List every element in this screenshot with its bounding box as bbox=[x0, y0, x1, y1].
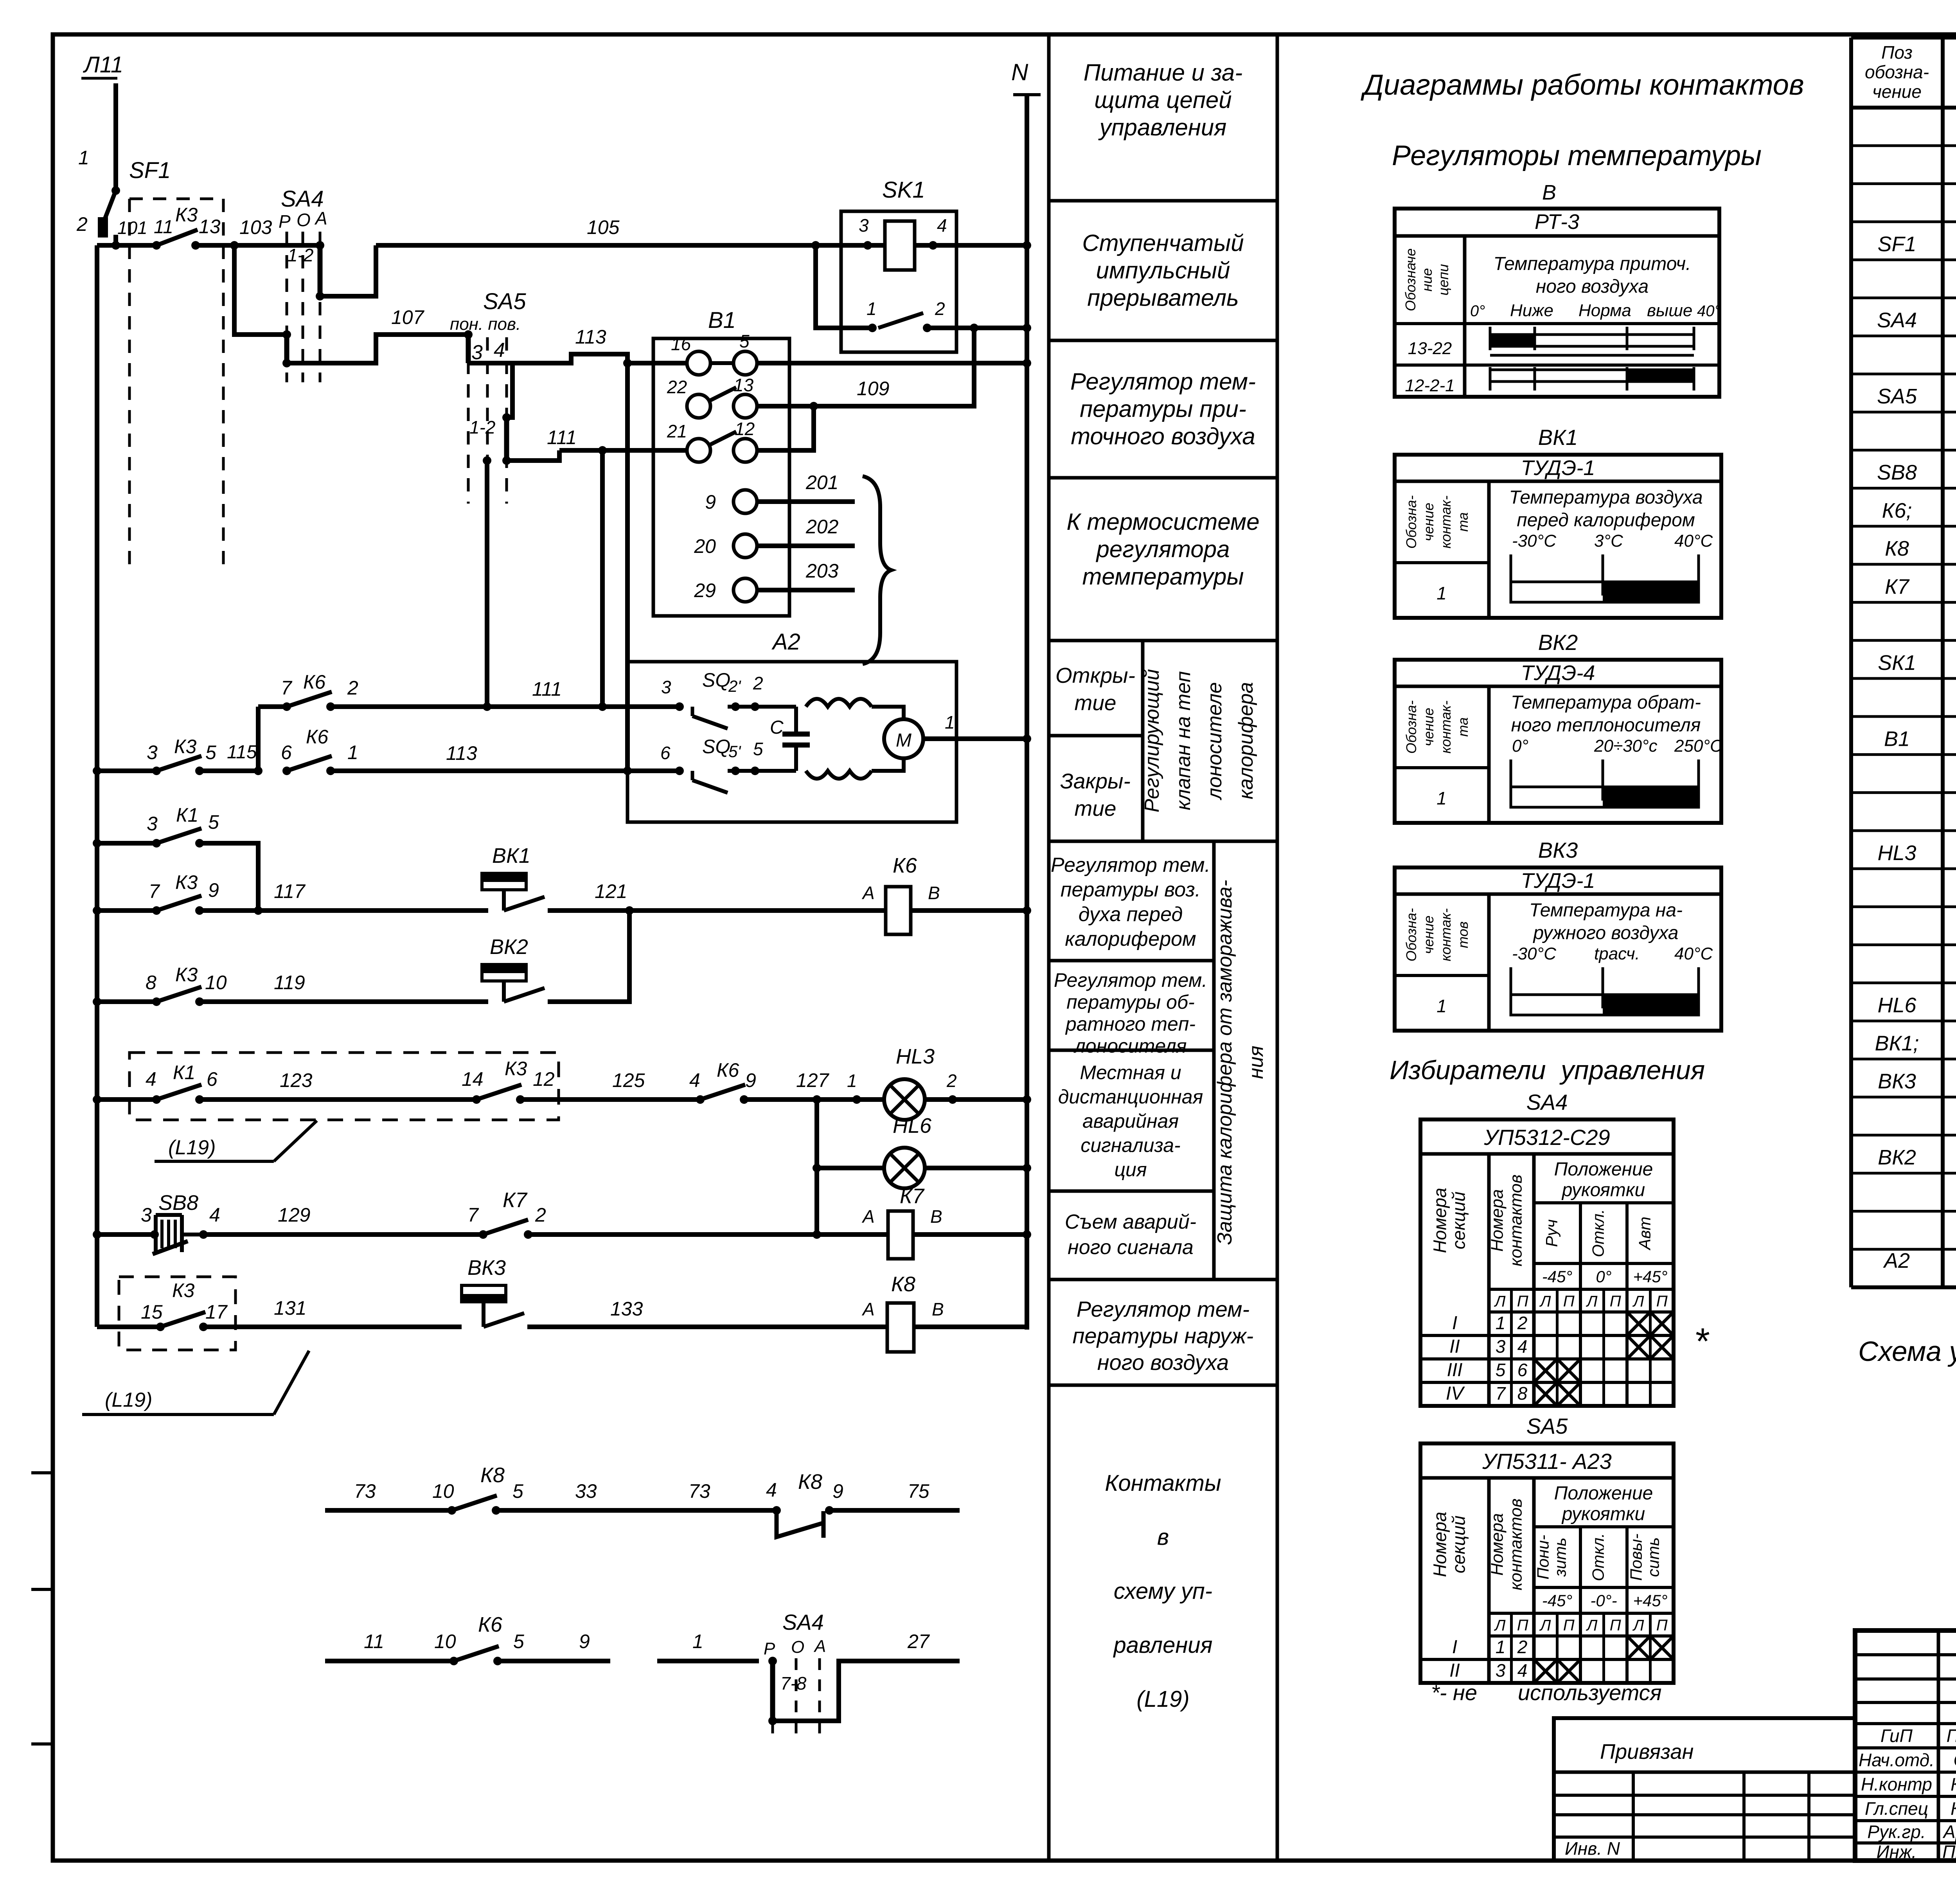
svg-text:113: 113 bbox=[575, 326, 606, 348]
svg-text:равления: равления bbox=[1113, 1632, 1213, 1658]
svg-text:33: 33 bbox=[575, 1480, 597, 1502]
svg-text:та: та bbox=[1455, 717, 1471, 737]
svg-text:контактов: контактов bbox=[1507, 1175, 1526, 1267]
svg-text:Закры-: Закры- bbox=[1060, 769, 1131, 793]
svg-text:I: I bbox=[1452, 1637, 1457, 1657]
svg-text:10: 10 bbox=[432, 1480, 454, 1502]
svg-text:73: 73 bbox=[354, 1480, 376, 1502]
svg-text:0°: 0° bbox=[1470, 302, 1485, 320]
svg-text:Номера: Номера bbox=[1430, 1512, 1450, 1577]
svg-text:1: 1 bbox=[867, 299, 877, 319]
svg-text:В: В bbox=[1542, 181, 1556, 204]
svg-text:К6: К6 bbox=[893, 854, 917, 877]
svg-text:Съем аварий-: Съем аварий- bbox=[1065, 1211, 1196, 1233]
svg-text:40°: 40° bbox=[1697, 302, 1721, 320]
svg-text:А2: А2 bbox=[771, 629, 800, 655]
svg-text:ружного воздуха: ружного воздуха bbox=[1532, 923, 1678, 943]
svg-text:(L19): (L19) bbox=[168, 1136, 216, 1159]
svg-text:в: в bbox=[1157, 1524, 1169, 1550]
svg-text:Ступенчатый: Ступенчатый bbox=[1082, 230, 1244, 256]
svg-text:рукоятки: рукоятки bbox=[1561, 1504, 1645, 1524]
svg-text:Р: Р bbox=[279, 211, 291, 232]
svg-text:УП5312-С29: УП5312-С29 bbox=[1483, 1125, 1610, 1150]
svg-text:Температура приточ.: Температура приточ. bbox=[1494, 254, 1691, 274]
svg-text:В: В bbox=[928, 883, 940, 903]
svg-text:113: 113 bbox=[446, 742, 477, 764]
svg-text:Обозна-: Обозна- bbox=[1403, 700, 1419, 754]
svg-text:Номера: Номера bbox=[1488, 1513, 1507, 1576]
svg-text:HL6: HL6 bbox=[1877, 993, 1916, 1017]
svg-text:Н.контр: Н.контр bbox=[1861, 1774, 1932, 1794]
svg-text:15: 15 bbox=[141, 1301, 163, 1323]
svg-text:Регулирующий: Регулирующий bbox=[1141, 669, 1163, 813]
svg-text:А: А bbox=[861, 1299, 875, 1319]
svg-text:SQ: SQ bbox=[702, 669, 730, 691]
svg-text:+45°: +45° bbox=[1633, 1267, 1667, 1286]
svg-text:SK1: SK1 bbox=[882, 177, 925, 203]
svg-text:Л11: Л11 bbox=[83, 52, 123, 77]
svg-text:12: 12 bbox=[533, 1068, 555, 1090]
svg-text:1: 1 bbox=[945, 712, 955, 732]
svg-text:Ниже: Ниже bbox=[1510, 301, 1553, 320]
svg-text:тов: тов bbox=[1455, 921, 1471, 948]
svg-text:SВ8: SВ8 bbox=[158, 1191, 198, 1215]
svg-text:В1: В1 bbox=[1884, 727, 1910, 750]
svg-text:пературы при-: пературы при- bbox=[1080, 396, 1246, 422]
svg-text:2': 2' bbox=[728, 677, 741, 695]
svg-text:чение: чение bbox=[1420, 503, 1436, 542]
svg-text:117: 117 bbox=[274, 880, 306, 902]
svg-text:8: 8 bbox=[146, 972, 156, 993]
svg-text:-45°: -45° bbox=[1542, 1267, 1573, 1286]
svg-text:обозна-: обозна- bbox=[1865, 62, 1929, 82]
svg-text:SА4: SА4 bbox=[1877, 309, 1917, 332]
svg-text:9: 9 bbox=[832, 1480, 843, 1502]
svg-text:4: 4 bbox=[1517, 1660, 1528, 1681]
svg-text:II: II bbox=[1449, 1660, 1460, 1681]
svg-text:В: В bbox=[930, 1206, 942, 1227]
svg-text:SA5: SA5 bbox=[483, 289, 526, 314]
svg-text:калорифера: калорифера bbox=[1235, 682, 1257, 799]
svg-text:8: 8 bbox=[1517, 1383, 1528, 1404]
svg-text:123: 123 bbox=[280, 1069, 313, 1091]
svg-text:SВ8: SВ8 bbox=[1877, 461, 1917, 484]
svg-text:SQ: SQ bbox=[702, 736, 730, 758]
svg-text:-30°С: -30°С bbox=[1512, 531, 1557, 551]
svg-text:пературы наруж-: пературы наруж- bbox=[1073, 1323, 1254, 1348]
svg-text:7: 7 bbox=[1496, 1383, 1506, 1404]
svg-text:Схема управления приточной: Схема управления приточной системой лист… bbox=[1858, 1336, 1956, 1367]
svg-text:К7: К7 bbox=[900, 1184, 925, 1208]
svg-text:ного воздуха: ного воздуха bbox=[1097, 1350, 1229, 1375]
svg-text:ТУДЭ-1: ТУДЭ-1 bbox=[1521, 869, 1595, 893]
svg-text:11: 11 bbox=[154, 217, 173, 238]
svg-text:ВК3: ВК3 bbox=[467, 1256, 506, 1280]
svg-text:чение: чение bbox=[1872, 81, 1922, 102]
svg-text:температуры: температуры bbox=[1082, 563, 1244, 590]
svg-text:111: 111 bbox=[532, 678, 562, 700]
svg-text:К1: К1 bbox=[173, 1062, 195, 1083]
svg-text:Откры-: Откры- bbox=[1055, 663, 1135, 687]
svg-text:перед калорифером: перед калорифером bbox=[1517, 510, 1695, 531]
svg-text:регулятора: регулятора bbox=[1096, 536, 1230, 562]
svg-text:121: 121 bbox=[595, 880, 627, 902]
svg-text:4: 4 bbox=[1517, 1336, 1528, 1357]
svg-text:ВК2: ВК2 bbox=[490, 935, 528, 959]
svg-text:3: 3 bbox=[147, 813, 158, 835]
svg-text:1: 1 bbox=[1496, 1313, 1506, 1333]
svg-text:101: 101 bbox=[117, 218, 147, 238]
svg-text:+45°: +45° bbox=[1633, 1591, 1667, 1610]
svg-text:калорифером: калорифером bbox=[1065, 928, 1196, 950]
svg-text:2: 2 bbox=[935, 299, 945, 319]
svg-text:К8: К8 bbox=[1885, 537, 1909, 560]
svg-text:1: 1 bbox=[1436, 788, 1447, 808]
svg-text:11: 11 bbox=[364, 1630, 384, 1652]
svg-text:3: 3 bbox=[1496, 1336, 1506, 1357]
svg-text:ния: ния bbox=[1245, 1046, 1267, 1079]
svg-text:202: 202 bbox=[805, 516, 839, 538]
svg-text:3: 3 bbox=[147, 741, 158, 763]
svg-text:К3: К3 bbox=[175, 964, 198, 986]
svg-text:К8: К8 bbox=[891, 1272, 915, 1296]
svg-text:1-2: 1-2 bbox=[469, 417, 495, 437]
svg-text:щита цепей: щита цепей bbox=[1094, 87, 1231, 113]
svg-text:3: 3 bbox=[661, 677, 671, 697]
svg-text:127: 127 bbox=[796, 1069, 830, 1091]
svg-text:К7: К7 bbox=[503, 1188, 528, 1212]
svg-text:тие: тие bbox=[1075, 691, 1116, 715]
svg-text:Регуляторы температуры: Регуляторы температуры bbox=[1392, 140, 1762, 171]
svg-text:5: 5 bbox=[1496, 1360, 1506, 1380]
svg-text:Избиратели: Избиратели bbox=[1390, 1055, 1546, 1085]
svg-text:Пони-: Пони- bbox=[1534, 1535, 1552, 1579]
svg-text:-45°: -45° bbox=[1542, 1591, 1573, 1610]
svg-text:П: П bbox=[1656, 1617, 1668, 1634]
svg-text:125: 125 bbox=[612, 1069, 645, 1091]
svg-text:2: 2 bbox=[1517, 1637, 1528, 1657]
svg-text:20: 20 bbox=[694, 535, 716, 557]
svg-text:контак-: контак- bbox=[1438, 700, 1454, 753]
svg-text:Л: Л bbox=[1586, 1617, 1598, 1634]
svg-text:-0°-: -0°- bbox=[1590, 1591, 1617, 1610]
svg-text:лоносителе: лоносителе bbox=[1203, 682, 1226, 800]
svg-text:Р: Р bbox=[764, 1639, 775, 1658]
svg-text:0°: 0° bbox=[1512, 736, 1528, 756]
svg-text:HL6: HL6 bbox=[893, 1114, 932, 1137]
svg-text:9: 9 bbox=[745, 1069, 756, 1091]
svg-text:13: 13 bbox=[199, 216, 221, 238]
svg-text:10: 10 bbox=[205, 972, 227, 993]
svg-text:контак-: контак- bbox=[1438, 908, 1454, 961]
svg-text:Л: Л bbox=[1494, 1293, 1506, 1310]
svg-text:Огурцов: Огурцов bbox=[1954, 1750, 1956, 1770]
svg-text:SF1: SF1 bbox=[129, 158, 171, 183]
svg-text:Норма: Норма bbox=[1578, 301, 1631, 320]
svg-text:Диаграммы работы контактов: Диаграммы работы контактов bbox=[1361, 68, 1804, 101]
svg-text:контактов: контактов bbox=[1507, 1499, 1526, 1591]
svg-text:клапан на теп: клапан на теп bbox=[1172, 671, 1195, 810]
svg-text:Кузнецов: Кузнецов bbox=[1951, 1774, 1956, 1794]
svg-text:5: 5 bbox=[205, 741, 216, 763]
svg-text:*: * bbox=[1694, 1321, 1710, 1362]
svg-text:Положение: Положение bbox=[1554, 1159, 1653, 1180]
svg-text:та: та bbox=[1455, 512, 1471, 532]
svg-text:(L19): (L19) bbox=[1136, 1686, 1189, 1712]
svg-text:К7: К7 bbox=[1885, 575, 1910, 598]
svg-text:А2: А2 bbox=[1883, 1249, 1910, 1272]
svg-text:Местная и: Местная и bbox=[1080, 1062, 1181, 1083]
svg-text:Защита калорифера от заморажив: Защита калорифера от заморажива- bbox=[1214, 880, 1236, 1245]
svg-text:ВК1: ВК1 bbox=[1538, 425, 1578, 450]
svg-text:В: В bbox=[932, 1299, 944, 1319]
svg-text:1: 1 bbox=[78, 147, 89, 169]
svg-text:секций: секций bbox=[1449, 1515, 1469, 1573]
svg-text:К3: К3 bbox=[175, 871, 198, 893]
svg-text:Регулятор тем-: Регулятор тем- bbox=[1077, 1297, 1249, 1321]
svg-text:SА4: SА4 bbox=[1526, 1090, 1568, 1114]
svg-text:ТУДЭ-1: ТУДЭ-1 bbox=[1521, 456, 1595, 480]
svg-text:7-8: 7-8 bbox=[780, 1673, 807, 1693]
svg-text:119: 119 bbox=[274, 972, 305, 993]
svg-text:Л: Л bbox=[1632, 1293, 1644, 1310]
svg-text:дистанционная: дистанционная bbox=[1058, 1086, 1203, 1108]
svg-text:9: 9 bbox=[705, 491, 716, 513]
svg-text:SF1: SF1 bbox=[1877, 232, 1916, 256]
svg-text:1: 1 bbox=[692, 1630, 703, 1652]
svg-text:9: 9 bbox=[208, 879, 219, 901]
svg-text:прерыватель: прерыватель bbox=[1087, 285, 1239, 311]
svg-text:Л: Л bbox=[1586, 1293, 1598, 1310]
svg-text:3: 3 bbox=[1496, 1660, 1506, 1681]
svg-text:Температура воздуха: Температура воздуха bbox=[1509, 487, 1703, 508]
svg-text:РТ-3: РТ-3 bbox=[1535, 210, 1579, 234]
svg-text:1: 1 bbox=[847, 1071, 857, 1091]
svg-text:0°: 0° bbox=[1596, 1267, 1611, 1286]
svg-text:21: 21 bbox=[667, 421, 687, 441]
svg-text:В1: В1 bbox=[708, 308, 736, 333]
svg-text:К8: К8 bbox=[798, 1470, 822, 1494]
svg-text:Температура на-: Температура на- bbox=[1529, 900, 1683, 921]
svg-text:аварийная: аварийная bbox=[1082, 1110, 1179, 1132]
svg-text:К3: К3 bbox=[172, 1280, 194, 1301]
svg-text:201: 201 bbox=[805, 472, 838, 493]
svg-text:ТУДЭ-4: ТУДЭ-4 bbox=[1521, 661, 1595, 685]
svg-text:УП5311- А23: УП5311- А23 bbox=[1482, 1449, 1612, 1474]
svg-text:П: П bbox=[1517, 1293, 1529, 1310]
svg-text:Регулятор тем.: Регулятор тем. bbox=[1054, 969, 1207, 991]
svg-text:ГиП: ГиП bbox=[1880, 1726, 1913, 1746]
svg-text:цепи: цепи bbox=[1435, 264, 1451, 295]
svg-text:зить: зить bbox=[1551, 1538, 1569, 1577]
svg-text:Гл.спец: Гл.спец bbox=[1865, 1798, 1928, 1819]
svg-text:ратного теп-: ратного теп- bbox=[1065, 1013, 1196, 1035]
svg-text:(L19): (L19) bbox=[105, 1389, 152, 1411]
svg-text:2: 2 bbox=[347, 677, 358, 699]
svg-text:С: С bbox=[770, 717, 784, 738]
svg-text:133: 133 bbox=[610, 1298, 643, 1320]
svg-text:П: П bbox=[1656, 1293, 1668, 1310]
svg-text:Л: Л bbox=[1539, 1617, 1551, 1634]
svg-text:чение: чение bbox=[1420, 916, 1436, 954]
svg-text:П: П bbox=[1563, 1293, 1575, 1310]
svg-text:управления: управления bbox=[1559, 1055, 1705, 1085]
svg-text:2: 2 bbox=[753, 673, 763, 693]
svg-text:1: 1 bbox=[1496, 1637, 1506, 1657]
svg-text:9: 9 bbox=[579, 1630, 590, 1652]
svg-text:выше: выше bbox=[1647, 301, 1692, 320]
svg-text:секций: секций bbox=[1449, 1191, 1469, 1249]
svg-text:6: 6 bbox=[207, 1068, 218, 1090]
svg-text:4: 4 bbox=[209, 1204, 220, 1226]
svg-text:Арнаумова: Арнаумова bbox=[1942, 1822, 1956, 1842]
svg-text:107: 107 bbox=[391, 306, 425, 328]
svg-text:2: 2 bbox=[76, 213, 88, 235]
svg-text:Л: Л bbox=[1539, 1293, 1551, 1310]
svg-text:29: 29 bbox=[694, 579, 716, 601]
svg-text:6: 6 bbox=[660, 743, 671, 763]
svg-text:Питание и за-: Питание и за- bbox=[1084, 59, 1243, 86]
svg-text:73: 73 bbox=[689, 1480, 710, 1502]
svg-text:импульсный: импульсный bbox=[1096, 257, 1230, 284]
svg-text:точного воздуха: точного воздуха bbox=[1071, 423, 1255, 450]
svg-text:Инж.: Инж. bbox=[1877, 1842, 1917, 1862]
svg-text:4: 4 bbox=[494, 339, 505, 362]
svg-text:SК1: SК1 bbox=[1878, 651, 1916, 675]
svg-text:Регулятор тем-: Регулятор тем- bbox=[1070, 369, 1256, 395]
svg-text:Номера: Номера bbox=[1430, 1188, 1450, 1253]
svg-text:SА5: SА5 bbox=[1526, 1414, 1568, 1438]
svg-text:К6: К6 bbox=[717, 1059, 739, 1081]
svg-text:5: 5 bbox=[513, 1630, 524, 1652]
svg-text:ВК2: ВК2 bbox=[1538, 630, 1578, 655]
svg-text:О: О bbox=[297, 210, 311, 230]
svg-text:ние: ние bbox=[1419, 268, 1435, 292]
svg-text:А: А bbox=[861, 883, 875, 903]
svg-text:К3: К3 bbox=[505, 1058, 527, 1080]
svg-text:Кузнецов: Кузнецов bbox=[1951, 1798, 1956, 1819]
svg-text:20÷30°с: 20÷30°с bbox=[1594, 736, 1658, 756]
svg-text:tрасч.: tрасч. bbox=[1594, 944, 1640, 963]
svg-text:16: 16 bbox=[671, 334, 691, 354]
svg-text:А: А bbox=[314, 208, 327, 229]
svg-text:131: 131 bbox=[274, 1297, 306, 1319]
svg-text:3: 3 bbox=[471, 341, 483, 364]
svg-text:сигнализа-: сигнализа- bbox=[1080, 1134, 1180, 1156]
svg-text:Привязан: Привязан bbox=[1600, 1740, 1694, 1764]
svg-text:3: 3 bbox=[141, 1204, 152, 1226]
svg-text:4: 4 bbox=[937, 215, 947, 236]
svg-text:HL3: HL3 bbox=[1877, 841, 1916, 865]
svg-text:К3: К3 bbox=[174, 736, 196, 758]
svg-text:4: 4 bbox=[146, 1068, 156, 1090]
svg-text:12: 12 bbox=[735, 419, 755, 439]
svg-text:А: А bbox=[813, 1637, 826, 1656]
svg-text:2: 2 bbox=[946, 1071, 957, 1091]
svg-text:3°С: 3°С bbox=[1594, 531, 1623, 551]
svg-text:Номера: Номера bbox=[1488, 1189, 1507, 1252]
svg-text:управления: управления bbox=[1098, 114, 1227, 140]
svg-text:6: 6 bbox=[1517, 1360, 1528, 1380]
svg-text:ВК3: ВК3 bbox=[1878, 1070, 1916, 1093]
svg-text:П: П bbox=[1610, 1293, 1622, 1310]
svg-text:Обозна-: Обозна- bbox=[1403, 495, 1419, 549]
svg-text:Температура обрат-: Температура обрат- bbox=[1511, 692, 1701, 713]
svg-text:Обозна-: Обозна- bbox=[1403, 908, 1419, 961]
svg-text:К1: К1 bbox=[176, 804, 198, 826]
svg-text:22: 22 bbox=[667, 377, 687, 397]
svg-text:Поз: Поз bbox=[1881, 42, 1913, 63]
svg-text:используется: используется bbox=[1518, 1680, 1662, 1705]
svg-text:ного теплоносителя: ного теплоносителя bbox=[1511, 715, 1701, 736]
svg-text:Обозначе: Обозначе bbox=[1402, 248, 1418, 311]
svg-text:14: 14 bbox=[462, 1068, 484, 1090]
svg-text:К термосистеме: К термосистеме bbox=[1066, 509, 1259, 535]
svg-text:К6: К6 bbox=[303, 671, 325, 693]
svg-text:5: 5 bbox=[512, 1480, 523, 1502]
svg-text:1: 1 bbox=[347, 741, 358, 763]
svg-text:7: 7 bbox=[467, 1204, 479, 1226]
svg-text:SA4: SA4 bbox=[782, 1610, 824, 1634]
svg-text:ВК3: ВК3 bbox=[1538, 838, 1578, 862]
svg-text:Л: Л bbox=[1632, 1617, 1644, 1634]
svg-text:пон. пов.: пон. пов. bbox=[450, 315, 521, 334]
svg-text:2: 2 bbox=[1517, 1313, 1528, 1333]
svg-text:пературы воз.: пературы воз. bbox=[1061, 878, 1201, 901]
svg-text:рукоятки: рукоятки bbox=[1561, 1180, 1645, 1200]
svg-text:Л: Л bbox=[1494, 1617, 1506, 1634]
svg-text:III: III bbox=[1447, 1360, 1462, 1380]
svg-text:1-2: 1-2 bbox=[288, 245, 313, 265]
svg-text:П: П bbox=[1517, 1617, 1529, 1634]
svg-text:Руч: Руч bbox=[1543, 1219, 1561, 1247]
svg-text:40°С: 40°С bbox=[1674, 531, 1713, 551]
svg-text:Регулятор тем.: Регулятор тем. bbox=[1051, 854, 1210, 876]
svg-text:ция: ция bbox=[1114, 1159, 1147, 1181]
svg-text:40°С: 40°С bbox=[1674, 944, 1713, 963]
svg-text:6: 6 bbox=[281, 741, 292, 763]
svg-text:М: М bbox=[896, 730, 911, 751]
svg-text:105: 105 bbox=[587, 216, 620, 238]
svg-text:5: 5 bbox=[739, 331, 750, 351]
svg-text:4: 4 bbox=[689, 1069, 700, 1091]
svg-text:IV: IV bbox=[1446, 1383, 1465, 1404]
svg-text:Авт: Авт bbox=[1636, 1217, 1654, 1251]
svg-text:К8: К8 bbox=[480, 1463, 505, 1487]
svg-text:109: 109 bbox=[857, 378, 889, 400]
svg-text:Проимкина: Проимкина bbox=[1942, 1842, 1956, 1862]
svg-text:Контакты: Контакты bbox=[1105, 1470, 1221, 1496]
svg-text:13: 13 bbox=[733, 375, 754, 395]
svg-text:II: II bbox=[1449, 1336, 1460, 1357]
svg-text:Откл.: Откл. bbox=[1589, 1209, 1607, 1257]
svg-text:тие: тие bbox=[1075, 796, 1116, 821]
svg-text:ного воздуха: ного воздуха bbox=[1536, 276, 1649, 297]
svg-text:схему уп-: схему уп- bbox=[1114, 1578, 1212, 1604]
svg-text:ВК1: ВК1 bbox=[492, 844, 530, 867]
svg-text:17: 17 bbox=[205, 1301, 228, 1323]
svg-text:ного сигнала: ного сигнала bbox=[1068, 1236, 1194, 1259]
svg-text:О: О bbox=[791, 1638, 804, 1657]
svg-text:Нач.отд.: Нач.отд. bbox=[1859, 1750, 1934, 1770]
svg-text:115: 115 bbox=[227, 742, 257, 763]
svg-text:К6: К6 bbox=[306, 726, 328, 748]
svg-text:сить: сить bbox=[1644, 1537, 1663, 1577]
svg-text:I: I bbox=[1452, 1313, 1457, 1334]
svg-text:П: П bbox=[1563, 1617, 1575, 1634]
svg-text:чение: чение bbox=[1420, 708, 1436, 747]
svg-text:ВК2: ВК2 bbox=[1878, 1146, 1916, 1169]
